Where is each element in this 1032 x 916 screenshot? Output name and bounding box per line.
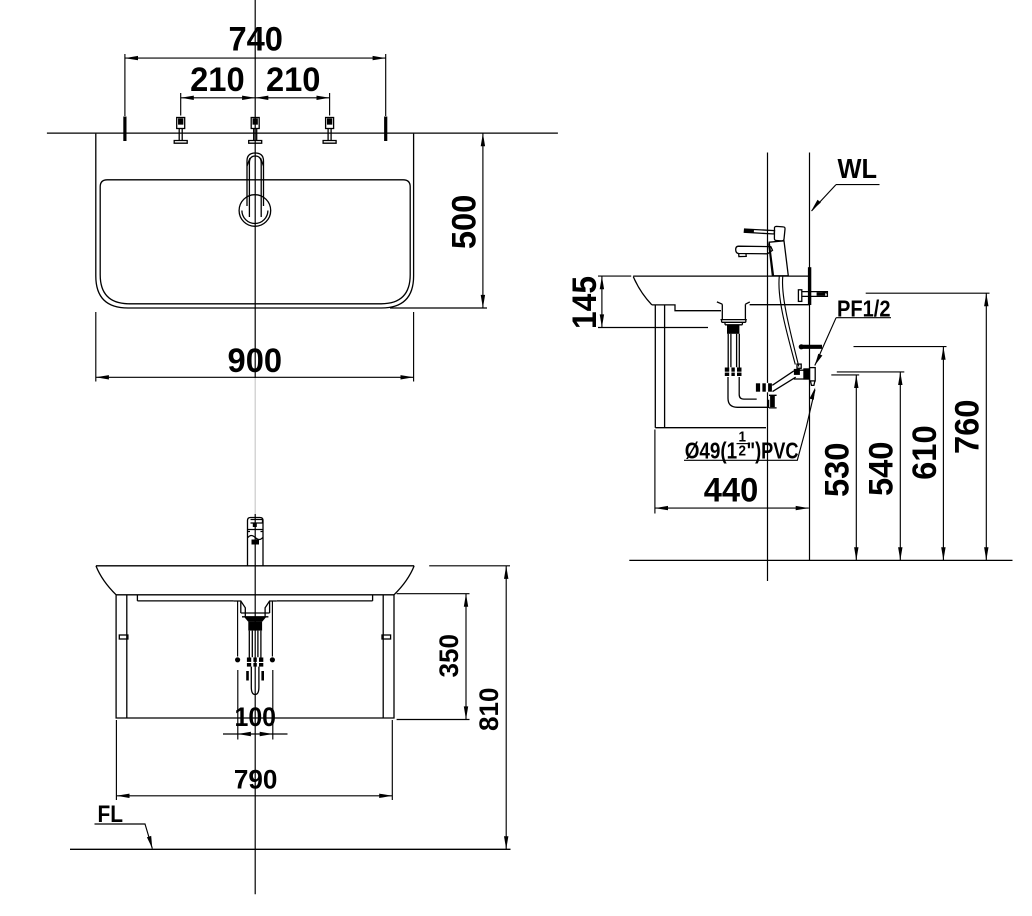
bowl bottom slope (side): [717, 302, 750, 304]
dim 740 line: [125, 57, 386, 59]
cabinet bottom (side): [655, 427, 766, 429]
drain lower tube (front): [251, 667, 259, 695]
anchor bolt left thick (plan): [123, 117, 126, 142]
svg-text:100: 100: [235, 702, 277, 732]
dim 760 line (side): [985, 293, 987, 560]
faucet lever bar (front): [251, 520, 263, 524]
FL label underline + leader: [95, 824, 153, 849]
dim 500 line: [482, 133, 484, 308]
cabinet side panel (side): [655, 305, 664, 428]
trap outlet stub black (side): [770, 396, 775, 407]
cabinet left clip (front): [119, 635, 128, 639]
drain ribbed nut black (side): [725, 367, 742, 376]
faucet spout inner arc (plan): [242, 211, 268, 224]
dim 210 extension lines: [181, 93, 330, 116]
anchor bolt right thick (plan): [384, 117, 387, 142]
wall line (plan): [47, 132, 558, 134]
svg-text:WL: WL: [838, 153, 878, 184]
basin left lip curve (front): [96, 566, 116, 595]
svg-text:FL: FL: [98, 801, 124, 828]
faucet body (side): [769, 241, 788, 276]
dim 210 arrows: [181, 96, 194, 100]
cabinet right clip (front): [382, 635, 391, 639]
dim 790 line (front): [116, 795, 392, 797]
dim 760 extension line (side): [866, 292, 990, 294]
WL label underline + leader: [812, 185, 880, 211]
mounting rod right (front): [271, 601, 273, 657]
center line (side): [767, 153, 769, 582]
svg-text:350: 350: [434, 634, 464, 678]
basin inner rim (plan): [100, 180, 410, 304]
drain side tabs black (front): [246, 671, 249, 681]
dim 145 line (side): [601, 276, 603, 327]
O49 PVC label underline + leader: [684, 390, 815, 461]
faucet supply hoses (side): [779, 276, 795, 365]
svg-text:440: 440: [704, 472, 759, 510]
svg-text:145: 145: [566, 276, 604, 329]
drain ribbed nut (front): [247, 657, 263, 667]
svg-text:210: 210: [266, 61, 321, 99]
dim 790 extension lines (front): [116, 720, 392, 800]
svg-text:760: 760: [949, 400, 987, 455]
basin top slab (front): [96, 565, 414, 567]
faucet body (front): [248, 518, 264, 567]
dim 900 extension lines: [96, 312, 414, 382]
faucet lever pivot dot (front): [253, 524, 257, 528]
faucet hole bolt right (plan): [323, 118, 336, 144]
dim 540 line (side): [899, 372, 901, 561]
svg-text:210: 210: [190, 61, 245, 99]
dim 350 line (front): [465, 594, 467, 720]
svg-text:790: 790: [234, 765, 278, 795]
dim 610 extension line (side): [854, 346, 947, 348]
svg-text:2: 2: [739, 443, 747, 460]
wall line WL (side): [809, 153, 811, 561]
drain coupling black (side): [727, 325, 739, 334]
faucet body capsule (plan): [247, 153, 264, 206]
faucet spout (side): [736, 246, 773, 254]
supply stub thick black (side): [801, 345, 822, 349]
svg-text:740: 740: [228, 21, 283, 59]
svg-text:610: 610: [906, 425, 944, 480]
faucet lever (side): [744, 229, 774, 234]
svg-text:Ø49(1: Ø49(1: [685, 437, 738, 463]
svg-text:530: 530: [819, 443, 857, 498]
faucet handle base blob (front): [252, 540, 260, 545]
supply valve (side): [798, 290, 801, 302]
dim 440 line (side): [655, 507, 809, 509]
wall waste flange (side): [810, 368, 816, 381]
dim 810 extension line (front): [429, 565, 510, 567]
cabinet inset panel top line (front): [137, 600, 372, 602]
dim 500 bottom extension line: [390, 307, 487, 309]
dim 145 extension lines (side): [598, 276, 708, 327]
basin outer outline (plan): [96, 134, 414, 308]
svg-text:PF1/2: PF1/2: [837, 296, 891, 322]
trap elbow (side): [728, 377, 769, 407]
faucet cartridge (side): [774, 226, 785, 241]
waste fitting black blocks (side): [794, 369, 800, 375]
wall bracket thick black (side): [808, 267, 811, 305]
basin under rim line 2 (front): [137, 595, 372, 601]
dim 900 arrows: [96, 375, 109, 379]
dim 500 arrows: [481, 133, 485, 146]
basin underside (side): [652, 305, 810, 311]
PF1/2 label underline + leader: [815, 318, 891, 366]
drain funnel black taper (front): [244, 617, 266, 622]
dim 900 line: [96, 376, 414, 378]
basin lip curve (side): [633, 277, 652, 305]
svg-text:500: 500: [446, 195, 484, 250]
faucet top chamfer (plan): [247, 158, 264, 166]
drain funnel (side): [722, 304, 745, 319]
dim 440 extension line (side): [654, 430, 656, 514]
svg-text:900: 900: [228, 342, 283, 380]
basin right lip curve (front): [394, 566, 414, 595]
dim 530 extension line (side): [831, 374, 859, 376]
cabinet outer box (front): [116, 595, 394, 718]
faucet spout circle (plan): [239, 195, 271, 227]
drain coupling nut black (front): [248, 622, 262, 631]
svg-text:810: 810: [474, 688, 504, 732]
svg-text:")PVC: ")PVC: [747, 437, 799, 463]
cabinet inner side walls (front): [127, 595, 383, 718]
fraction bar in O49 label: [737, 443, 749, 445]
dim 210 line: [181, 97, 330, 99]
dim 740 arrows: [125, 56, 138, 60]
center line vertical (plan+front): [254, 0, 256, 378]
dim 810 line (front): [505, 566, 507, 850]
dim 540 extension line (side): [837, 371, 905, 373]
dim 100 extension lines (front): [238, 670, 273, 740]
drain funnel (front): [234, 601, 277, 617]
faucet inner capsule (plan): [249, 156, 261, 217]
dim 530 line (side): [855, 375, 857, 561]
faucet hole bolt left (plan): [174, 118, 187, 144]
trap coupling rings black (side): [756, 383, 772, 392]
floor line (side): [629, 559, 1012, 561]
drain tailpipe (side): [728, 334, 739, 368]
faucet handle wave (front): [248, 536, 263, 540]
svg-text:540: 540: [862, 442, 900, 497]
spout aerator (side): [739, 254, 747, 257]
faucet cartridge lines (front): [248, 530, 264, 532]
dim 740 extension lines: [125, 54, 386, 116]
waste pipe to wall (side): [772, 371, 795, 392]
dim 350 extension lines (front): [397, 594, 470, 720]
dim 100 line + outside arrows (front): [223, 733, 288, 735]
faucet hole bolt center (plan): [249, 118, 262, 144]
basin underside line (front): [116, 594, 394, 596]
drain pipe walls (front): [249, 631, 261, 658]
mounting rod left (front): [237, 601, 239, 657]
floor line FL: [70, 848, 511, 850]
basin top (side): [633, 275, 809, 277]
dim 610 line (side): [942, 347, 944, 561]
